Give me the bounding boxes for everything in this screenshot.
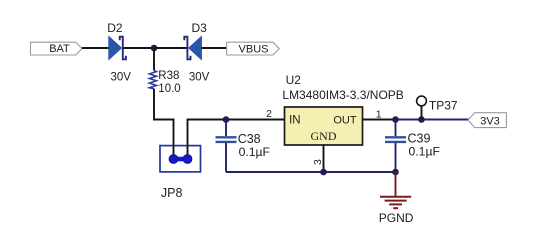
svg-text:BAT: BAT [49,43,70,55]
svg-text:VBUS: VBUS [239,43,269,55]
diode D3 (schottky) [184,36,201,60]
svg-text:30V: 30V [111,72,132,84]
svg-text:IN: IN [289,114,301,126]
svg-text:TP37: TP37 [429,98,458,112]
svg-text:C38: C38 [238,132,261,146]
jumper JP8 shorting bar and pins [169,155,192,164]
svg-text:0.1µF: 0.1µF [409,145,440,159]
svg-text:U2: U2 [286,73,302,87]
svg-text:R38: R38 [158,70,179,82]
wire node down to R38 [153,48,155,71]
svg-text:C39: C39 [408,132,431,146]
svg-text:2: 2 [266,108,272,120]
capacitor C39 [385,120,406,173]
node junction (PGND tap) [392,169,399,176]
net flag VBUS [227,42,280,55]
node junction (C38 tap) [223,116,230,123]
wire D3 anode to VBUS flag [202,47,228,49]
voltage regulator U2 [285,107,363,145]
wire BAT to D2 anode [82,47,109,49]
ground PGND [380,172,411,208]
resistor R38 zigzag [149,71,156,89]
wire D2 cathode to node [124,47,155,49]
svg-text:PGND: PGND [379,211,414,225]
wire output net to 3V3 flag [396,119,469,121]
svg-text:30V: 30V [189,72,210,84]
wire U2 OUT pin to node [363,119,396,121]
svg-text:3V3: 3V3 [480,116,500,128]
svg-text:D2: D2 [107,21,123,35]
svg-text:GND: GND [311,129,337,143]
wire JP8 pin 2 up to U2 IN pin [188,120,285,160]
diode D2 (schottky) [109,36,126,60]
wire node to D3 cathode [154,47,188,49]
capacitor C38 [216,120,237,173]
jumper JP8 body [160,146,201,172]
node junction (C39 tap) [392,116,399,123]
svg-text:0.1µF: 0.1µF [239,145,270,159]
node junction (top) [151,45,158,52]
wire U2 GND pin stub [323,145,325,172]
node junction (GND pin) [320,169,327,176]
node junction (TP37 tap) [418,116,425,123]
svg-text:10.0: 10.0 [158,83,180,95]
wire R38 to JP8 pin 1 [154,89,174,159]
svg-text:OUT: OUT [333,114,357,126]
wire ground net (bottom) [226,171,396,173]
svg-text:D3: D3 [192,21,208,35]
svg-text:JP8: JP8 [161,186,183,200]
svg-text:LM3480IM3-3.3/NOPB: LM3480IM3-3.3/NOPB [282,88,403,102]
test point TP37 [417,96,427,119]
net flag BAT [31,42,83,55]
svg-text:3: 3 [312,159,324,165]
net flag 3V3 [468,113,506,128]
